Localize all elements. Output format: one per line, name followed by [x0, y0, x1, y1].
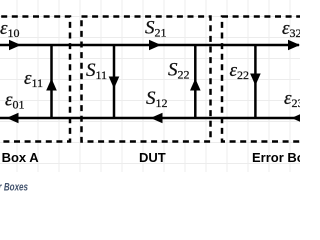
wire bottom rail: [0, 117, 300, 120]
wire e11 vertical branch: [46, 45, 57, 118]
arrow top rail left (e10 branch): [9, 40, 21, 51]
svg-text:r Boxes: r Boxes: [0, 182, 28, 194]
DUT dashed outline: [82, 17, 211, 142]
arrow bottom rail right (e23 branch): [292, 113, 304, 124]
wire S22 vertical branch: [190, 45, 201, 118]
background grid: [0, 0, 300, 172]
svg-text:DUT: DUT: [139, 150, 166, 165]
arrow bottom rail middle (S12 branch): [151, 113, 163, 124]
arrow top rail right (e32 branch): [288, 40, 300, 51]
wire S11 vertical branch: [109, 45, 120, 118]
error box B dashed outline: [222, 17, 320, 142]
svg-text:Error Box B: Error Box B: [252, 150, 300, 165]
arrow top rail middle (S21 branch): [149, 40, 161, 51]
wire e22 vertical branch: [250, 45, 261, 118]
svg-text:Error Box A: Error Box A: [0, 150, 39, 165]
error box A dashed outline: [0, 17, 70, 142]
arrow bottom rail left (e01 branch): [7, 113, 19, 124]
wire top rail: [0, 44, 299, 47]
